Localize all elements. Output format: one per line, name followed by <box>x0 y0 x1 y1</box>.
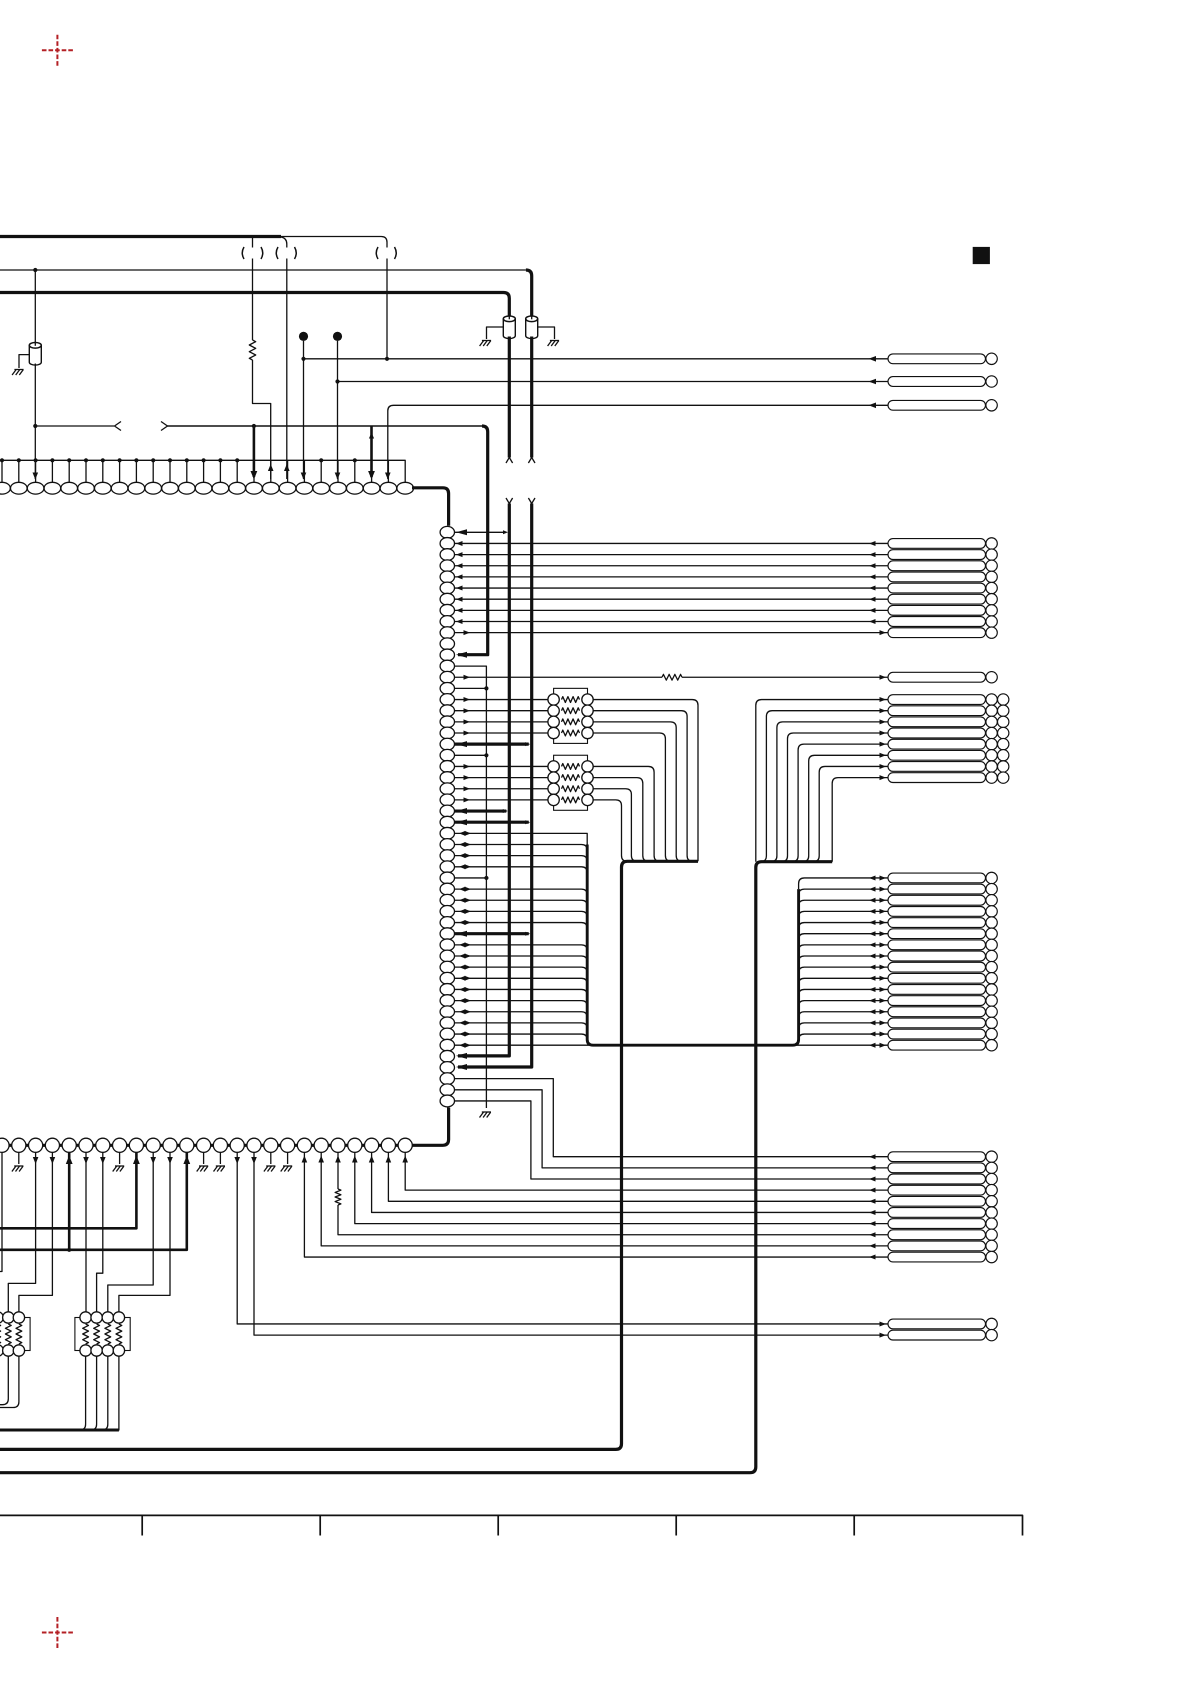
connector CN4 pin1 <box>888 694 1009 705</box>
ground G1 <box>12 370 24 376</box>
wire: V2 upper to fork <box>528 337 535 464</box>
connector CN4 pin6 <box>888 750 1009 761</box>
wire: pin R16 to RN1 <box>454 708 548 713</box>
bus C trunk <box>587 845 798 1046</box>
wire: V2 lower vertical <box>458 498 535 1067</box>
connector CN6 pin9 <box>888 1240 997 1251</box>
wire: V1 upper to fork <box>506 337 513 464</box>
bus A <box>0 861 698 1449</box>
arrow into pin T19 <box>301 473 307 480</box>
wire: rail D thick y=292.5 <box>0 291 504 294</box>
ground G3 <box>480 341 492 347</box>
arrow into pin T24 <box>385 473 391 480</box>
resistor network RN2 <box>548 755 593 810</box>
wire: R2 to CN3 pin1 <box>682 675 888 680</box>
resistor R1 <box>249 340 255 360</box>
wire: pin B23 to CN6 <box>386 1152 888 1204</box>
wire: pin R15 to RN1 <box>454 697 548 702</box>
wire: left rail to pin B9 <box>0 1152 140 1228</box>
IC U1 top-right corner <box>412 488 449 526</box>
connector CN2 pin8 <box>888 616 997 627</box>
wire: pin R29 into bus C <box>454 853 587 861</box>
connector CN6 pin3 <box>888 1173 997 1184</box>
connector CN5 pin1 <box>888 872 997 883</box>
resistor network RN1 <box>548 688 593 743</box>
wire: pin R17 to RN1 <box>454 719 548 724</box>
IC U1 bottom-right corner <box>412 1108 449 1146</box>
connector CN5 pin10 <box>888 973 997 984</box>
wire: pin R23 to RN2 <box>454 786 548 791</box>
connector CN5 pin15 <box>888 1028 997 1039</box>
wire: V1 lower vertical <box>458 498 513 1056</box>
wire: bus C branch to CN5 row 36 <box>799 931 888 939</box>
wire: pin R5 to CN2 pin5 <box>454 586 888 591</box>
wire: pin R8 to CN2 pin8 <box>454 619 888 624</box>
wire: pin R20 join V0 <box>454 753 488 757</box>
wire: bullet B to pin T21 <box>335 341 339 479</box>
connector CN4 pin2 <box>888 705 1009 716</box>
net H break arrows <box>115 422 168 431</box>
wire: horizontal rail B y=270 <box>0 269 526 271</box>
arrow into pin R47 <box>456 1053 467 1059</box>
connector CN4 pin5 <box>888 738 1009 749</box>
wire: pin R14 join V0 <box>454 686 488 690</box>
wire: pin R18 to RN1 <box>454 731 548 736</box>
connector CN5 pin4 <box>888 906 997 917</box>
wire: bus C branch to CN5 row 38 <box>799 954 888 962</box>
wire: bus C branch to CN5 row 33 <box>799 898 888 906</box>
connector CN2 pin5 <box>888 582 997 593</box>
wire: bus C branch to CN5 row 41 <box>799 987 888 995</box>
connector CN5 pin16 <box>888 1040 997 1051</box>
wire: pin B6 to RN4 <box>83 1152 89 1312</box>
connector CN3 pin1 <box>888 672 997 683</box>
top pin stubs <box>2 460 388 482</box>
bus C trunk top branch <box>799 878 888 889</box>
wire: pin R9 to CN2 pin9 <box>454 630 888 635</box>
wire: bus B riser 2 to CN4 <box>761 708 888 862</box>
connector CN1 pin3 <box>888 400 997 411</box>
wire: pin R51 to CN6 <box>454 1101 888 1182</box>
wire: pin R33 into bus C <box>454 898 587 906</box>
wire: bus C branch to CN5 row 37 <box>799 942 888 950</box>
connector CN6 pin7 <box>888 1218 997 1229</box>
wire: RN4 out3 <box>102 1356 108 1430</box>
ground G4 (V0) <box>480 1112 492 1118</box>
wire: pin R3 to CN2 pin3 <box>454 563 888 568</box>
wire: pin R35 into bus C <box>454 920 587 928</box>
connector hop P2 <box>276 247 296 259</box>
wire: C1 vertical <box>33 268 37 344</box>
wire: pin R28 into bus C <box>454 842 587 850</box>
connector CN6 pin1 <box>888 1151 997 1162</box>
wire: pin R39 into bus C <box>454 965 587 973</box>
connector CN4 pin7 <box>888 761 1009 772</box>
wire: vertical X3 to pin T18 <box>286 259 288 480</box>
ground G9 <box>264 1166 276 1172</box>
wire: RN2 out 2 to bus A <box>593 778 648 862</box>
wire: RN3 out1 <box>0 1356 8 1405</box>
connector CN5 pin9 <box>888 961 997 972</box>
ground G7 <box>197 1166 209 1172</box>
wire: RN1 out 4 to bus A <box>593 733 671 861</box>
wire: pin B8 stub <box>119 1152 121 1164</box>
node A (bullet) <box>299 332 308 341</box>
wire: bus B riser 4 to CN4 <box>782 731 888 862</box>
resistor network RN3 <box>0 1312 30 1356</box>
arrow into pin T3 <box>33 473 39 480</box>
wire: RN1 out 1 to bus A <box>593 700 698 862</box>
connector CN4 pin4 <box>888 727 1009 738</box>
wire: RN3 out2 <box>0 1356 19 1407</box>
wire: net G to CN1 pin3 <box>388 403 888 480</box>
connector CN5 pin3 <box>888 895 997 906</box>
wire: pin B22 to CN6 <box>352 1152 888 1226</box>
connector CN1 pin1 <box>888 353 997 364</box>
wire: pin B25 to CN6 <box>402 1152 888 1193</box>
wire: bus C branch to CN5 row 34 <box>799 909 888 917</box>
wire: R3 to CN6 <box>335 1156 888 1238</box>
arrow out pin T17 <box>268 464 274 471</box>
connector CN7 pin1 <box>888 1318 997 1329</box>
wire: pin R45 into bus C <box>454 1032 587 1040</box>
connector CN1 pin2 <box>888 376 997 387</box>
connector CN2 pin6 <box>888 594 997 605</box>
bus: RN4 common return <box>0 1429 119 1432</box>
wire: left rail to pin B12 <box>0 1152 190 1250</box>
connector CN2 pin7 <box>888 605 997 616</box>
wire: bus C branch to CN5 row 40 <box>799 976 888 984</box>
wire: pin R24 to RN2 <box>454 797 548 802</box>
connector CN4 pin3 <box>888 716 1009 727</box>
connector CN4 pin8 <box>888 772 1009 783</box>
wire: pin B7 to RN4 <box>97 1152 106 1312</box>
wire: pin R1 to CN2 pin1 <box>454 541 888 546</box>
arrow into pin R11 <box>456 652 467 658</box>
wire: pin B14 stub <box>219 1152 221 1164</box>
wire: bus C branch to CN5 row 35 <box>799 920 888 928</box>
connector CN6 pin5 <box>888 1196 997 1207</box>
wire: pin B2 stub <box>18 1152 20 1164</box>
wire: C1 down to pin T3 <box>33 364 37 480</box>
ground G8 <box>214 1166 226 1172</box>
registration cross top-left <box>42 35 73 66</box>
registration cross bottom-left <box>42 1617 73 1648</box>
connector CN6 pin2 <box>888 1162 997 1173</box>
connector CN5 pin5 <box>888 917 997 928</box>
wire: pin R50 to CN6 <box>454 1090 888 1171</box>
wire: bus C branch to CN5 row 42 <box>799 998 888 1006</box>
connector hop P3 <box>376 247 396 259</box>
ground G6 <box>113 1166 125 1172</box>
wire: bus B riser 3 to CN4 <box>771 719 888 861</box>
IC U1 right pin column <box>440 526 454 1106</box>
wire: pin B13 stub <box>203 1152 205 1164</box>
wire: net F to CN1 pin2 <box>338 379 889 385</box>
wire: pin B23 to CN6 <box>369 1152 888 1215</box>
wire: bus C branch to CN5 row 45 <box>799 1032 888 1040</box>
wire: pin B10 to RN4 <box>108 1152 156 1312</box>
wire: C2 ground lead right <box>538 327 555 339</box>
wire: pin R6 to CN2 pin6 <box>454 597 888 602</box>
wire: pin R21 to RN2 <box>454 764 548 769</box>
wire: pin R36 to V2 <box>454 931 530 937</box>
wire: pin B15 to CN7 pin1 <box>234 1152 888 1327</box>
wire: pin B21 upper <box>337 1152 339 1189</box>
capacitor C2 <box>526 315 538 339</box>
connector CN5 pin12 <box>888 995 997 1006</box>
wire: C1 ground lead <box>19 355 29 368</box>
page frame bottom border <box>0 1515 1023 1535</box>
wire: net H tap to pin T23 <box>368 426 375 480</box>
wire: pin R44 into bus C <box>454 1020 587 1028</box>
connector hop P1 <box>242 247 263 259</box>
wire: RN2 out 1 to bus A <box>593 766 660 861</box>
wire: bus B riser 7 to CN4 <box>813 764 888 862</box>
wire: pin B11 to RN4 <box>119 1152 173 1312</box>
wire: pin R22 to RN2 <box>454 775 548 780</box>
wire: pin B17 stub <box>270 1152 272 1164</box>
wire: bus C branch to CN5 row 44 <box>799 1020 888 1028</box>
wire: bus B riser 6 to CN4 <box>803 753 888 862</box>
wire: pin R4 to CN2 pin4 <box>454 574 888 579</box>
connector CN5 pin8 <box>888 950 997 961</box>
wire: pin R13 to R2 resistor <box>454 675 662 680</box>
wire: C3 ground lead left <box>487 327 504 339</box>
resistor network RN4 <box>75 1312 130 1356</box>
ground G10 <box>281 1166 293 1172</box>
wire: pin R34 into bus C <box>454 909 587 917</box>
wire: net H left segment <box>35 425 114 427</box>
bus B trunk <box>0 862 832 1473</box>
connector CN5 pin13 <box>888 1006 997 1017</box>
wire: RN1 out 3 to bus A <box>593 722 682 861</box>
wire: R1 to pin T17 <box>253 360 271 479</box>
wire: pin B4 to RN3 <box>19 1152 55 1312</box>
IC U1 top pin row <box>0 482 414 494</box>
wire: pin R2 to CN2 pin2 <box>454 552 888 557</box>
wire: net H tap to pin T15 <box>251 424 258 480</box>
page mark (black square) <box>973 247 990 264</box>
arrow into pin R48 <box>456 1064 467 1070</box>
connector CN6 pin10 <box>888 1251 997 1262</box>
wire: thin rail segment to corner <box>281 237 387 248</box>
connector CN5 pin7 <box>888 939 997 950</box>
wire: vertical X1 through resistor <box>252 237 254 340</box>
wire: bullet A to pin T19 <box>301 341 305 479</box>
wire: pin B18 stub <box>287 1152 289 1164</box>
connector CN6 pin8 <box>888 1229 997 1240</box>
wire: bus B riser 8 to CN4 <box>832 775 888 862</box>
arrow out pin T18 <box>284 464 290 471</box>
wire: RN2 out 3 to bus A <box>593 789 637 862</box>
wire: pin R0 to V1 <box>454 529 508 535</box>
bus C trunk upper <box>454 833 587 844</box>
connector CN2 pin2 <box>888 549 997 560</box>
connector CN5 pin14 <box>888 1017 997 1028</box>
arrow into pin T21 <box>335 473 341 480</box>
connector CN7 pin2 <box>888 1329 997 1340</box>
wire: pin R42 into bus C <box>454 998 587 1006</box>
capacitor C3 <box>503 315 515 339</box>
wire: thick top rail <box>0 235 281 238</box>
connector CN5 pin2 <box>888 883 997 894</box>
connector CN2 pin1 <box>888 538 997 549</box>
wire: V2 upper vertical <box>526 270 532 317</box>
wire: pin B1 exit left <box>0 1152 2 1272</box>
node B (bullet) <box>333 332 342 341</box>
connector CN5 pin11 <box>888 984 997 995</box>
connector CN2 pin9 <box>888 627 997 638</box>
wire: pin R46 along bus C to CN5 <box>454 1043 888 1048</box>
wire: pin R41 into bus C <box>454 987 587 995</box>
wire: bus C branch to CN5 row 43 <box>799 1009 888 1017</box>
wire: RN4 out2 <box>91 1356 97 1430</box>
wire: rail curve into vertical node X3 <box>281 237 287 248</box>
connector CN5 pin6 <box>888 928 997 939</box>
IC U1 bottom pin row <box>0 1138 412 1152</box>
wire: bus B riser 1 to CN4 <box>756 697 888 862</box>
connector CN6 pin4 <box>888 1184 997 1195</box>
wire: net E to CN1 pin1 <box>304 356 889 362</box>
capacitor C1 <box>29 342 41 366</box>
wire: pin R26 to V2 <box>454 819 530 825</box>
wire: pin R25 to V1 <box>454 808 508 814</box>
wire: pin R19 to V2 <box>454 741 530 747</box>
ground G2 <box>548 341 560 347</box>
connector CN2 pin4 <box>888 571 997 582</box>
wire: pin R37 into bus C <box>454 942 587 950</box>
wire: RN4 out1 <box>80 1356 86 1430</box>
ground G5 <box>12 1166 24 1172</box>
wire: bus B riser 5 to CN4 <box>792 742 888 862</box>
wire: pin B3 to RN3 <box>8 1152 38 1312</box>
wire: top pin common rail <box>0 458 405 482</box>
wire: RN2 out 4 to bus A <box>593 800 627 861</box>
wire: RN4 out4 <box>113 1356 119 1430</box>
wire: pin R7 to CN2 pin7 <box>454 608 888 613</box>
connector CN2 pin3 <box>888 560 997 571</box>
wire: pin R12 corner into V0 <box>454 666 486 1108</box>
wire: pin R30 into bus C <box>454 864 587 872</box>
wire: pin R49 to CN6 <box>454 1079 888 1160</box>
wire: bus C branch to CN5 row 32 <box>799 887 888 895</box>
wire: pin R38 into bus C <box>454 954 587 962</box>
wire: pin B20 to CN6 <box>318 1152 888 1249</box>
wire: pin B18 to CN6 <box>302 1152 888 1260</box>
wire: pin B5 thick <box>66 1152 73 1252</box>
wire: pin B16 to CN7 pin2 <box>251 1152 888 1338</box>
wire: vertical X4 to junction <box>386 259 388 359</box>
wire: pin R40 into bus C <box>454 976 587 984</box>
wire: pin R32 into bus C <box>454 887 587 895</box>
wire: bus C branch to CN5 row 39 <box>799 965 888 973</box>
connector CN6 pin6 <box>888 1207 997 1218</box>
wire: pin R31 join V0 <box>454 876 488 880</box>
wire: pin R43 into bus C <box>454 1009 587 1017</box>
wire: V1 upper vertical <box>504 293 510 318</box>
wire: net H to corner <box>168 425 483 427</box>
wire: net H thick corner down V4 <box>458 426 488 655</box>
wire: RN1 out 2 to bus A <box>593 711 693 862</box>
bus C trunk row arrows <box>459 831 886 881</box>
resistor R3 <box>335 1189 341 1205</box>
resistor R2 <box>662 674 682 680</box>
